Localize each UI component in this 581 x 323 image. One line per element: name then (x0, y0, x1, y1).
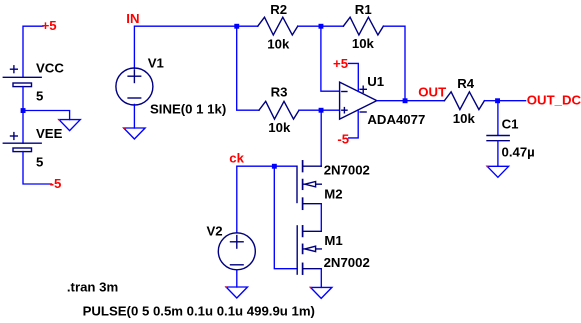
junction F (ck/M2 gate/M1 gate) (272, 164, 277, 169)
svg-text:OUT_DC: OUT_DC (527, 93, 581, 108)
wire junction to ground (23, 111, 70, 120)
wire op-amp output (377, 100, 405, 102)
transistor M1 (NMOS 2N7002) (297, 226, 321, 274)
wire F down to M1 gate (274, 166, 297, 269)
wire F to M2 gate (274, 165, 297, 167)
wire B to R1 (321, 25, 344, 27)
svg-text:ck: ck (229, 151, 244, 166)
resistor R1 (343, 17, 383, 35)
junction VCC/VEE/gnd (21, 108, 26, 113)
svg-text:V2: V2 (207, 224, 223, 239)
svg-text:-5: -5 (337, 131, 349, 146)
op-amp U1 (340, 82, 377, 119)
wire A to R2 (237, 25, 258, 27)
svg-text:+5: +5 (42, 18, 57, 33)
voltage source V2 (218, 233, 255, 270)
capacitor C1 (487, 136, 509, 141)
junction B (R2/R1/inv) (319, 24, 324, 29)
ground (C1) (487, 166, 508, 177)
transistor M2 (NMOS 2N7002) (297, 161, 321, 209)
wire R4 to E (484, 100, 497, 102)
wire VCC to VEE (22, 87, 24, 144)
svg-text:M2: M2 (324, 187, 342, 202)
svg-text:ADA4077: ADA4077 (367, 112, 425, 127)
svg-text:VCC: VCC (36, 60, 64, 75)
wire A down to R3 (237, 26, 259, 110)
battery VCC (3, 66, 41, 87)
svg-text:IN: IN (126, 11, 139, 26)
wire V1 to ground (133, 104, 135, 128)
svg-text:0.47µ: 0.47µ (502, 145, 535, 160)
svg-text:M1: M1 (324, 233, 342, 248)
wire R1 right down to output node (383, 26, 405, 101)
wire IN row (134, 26, 236, 68)
resistor R3 (259, 101, 299, 119)
svg-text:5: 5 (36, 154, 43, 169)
svg-text:R2: R2 (270, 2, 287, 17)
svg-text:R1: R1 (355, 2, 372, 17)
ground (M1) (311, 287, 332, 298)
wire V+ supply (349, 63, 359, 91)
ground (V1) (124, 128, 145, 139)
resistor R2 (258, 17, 298, 35)
wire ck row (237, 166, 274, 233)
svg-text:10k: 10k (453, 111, 476, 126)
wire C down to M2 drain (320, 110, 322, 166)
wire C to noninverting input (321, 109, 340, 111)
voltage source V1 (116, 68, 153, 105)
svg-text:+5: +5 (333, 56, 348, 71)
wire B down to inverting input (321, 26, 340, 91)
svg-text:5: 5 (36, 88, 43, 103)
svg-text:SINE(0 1 1k): SINE(0 1 1k) (150, 101, 226, 116)
svg-text:-5: -5 (50, 176, 62, 191)
wire C1 to ground (497, 141, 499, 167)
ground (VCC/VEE) (59, 120, 80, 131)
svg-text:2N7002: 2N7002 (324, 163, 370, 178)
svg-text:2N7002: 2N7002 (324, 255, 370, 270)
svg-text:R3: R3 (271, 84, 288, 99)
svg-text:R4: R4 (457, 76, 475, 91)
wire E to OUT_DC (498, 100, 526, 102)
svg-text:OUT: OUT (418, 85, 446, 100)
wire D to R4 (405, 100, 444, 102)
svg-text:U1: U1 (367, 74, 384, 89)
svg-text:10k: 10k (268, 120, 291, 135)
svg-text:V1: V1 (148, 56, 164, 71)
svg-text:VEE: VEE (36, 126, 63, 141)
svg-text:PULSE(0 5 0.5m 0.1u 0.1u 499.9: PULSE(0 5 0.5m 0.1u 0.1u 499.9u 1m) (83, 304, 315, 319)
wire +5 flag stub top-left (23, 26, 43, 77)
junction E (R4/C1/OUT_DC) (495, 98, 500, 103)
wire E down to C1 (497, 101, 499, 136)
wire R2 to B (298, 25, 321, 27)
wire VEE to -5 flag (23, 152, 52, 184)
svg-text:10k: 10k (352, 36, 375, 51)
resistor R4 (444, 92, 484, 110)
svg-text:.tran 3m: .tran 3m (67, 279, 118, 294)
battery VEE (3, 133, 41, 152)
wire V2 to ground (236, 270, 238, 287)
junction A (IN/R2/R3) (234, 24, 239, 29)
wire R3 to C (299, 109, 321, 111)
wire M2 source to M1 drain (320, 204, 322, 232)
svg-text:10k: 10k (267, 37, 290, 52)
junction D (out/R1/R4) (403, 98, 408, 103)
svg-text:C1: C1 (502, 116, 519, 131)
wire M1 source to ground (320, 269, 322, 288)
wire V- supply (349, 110, 359, 138)
ground (V2) (226, 287, 247, 298)
junction C (R3/+in/M2) (319, 108, 324, 113)
